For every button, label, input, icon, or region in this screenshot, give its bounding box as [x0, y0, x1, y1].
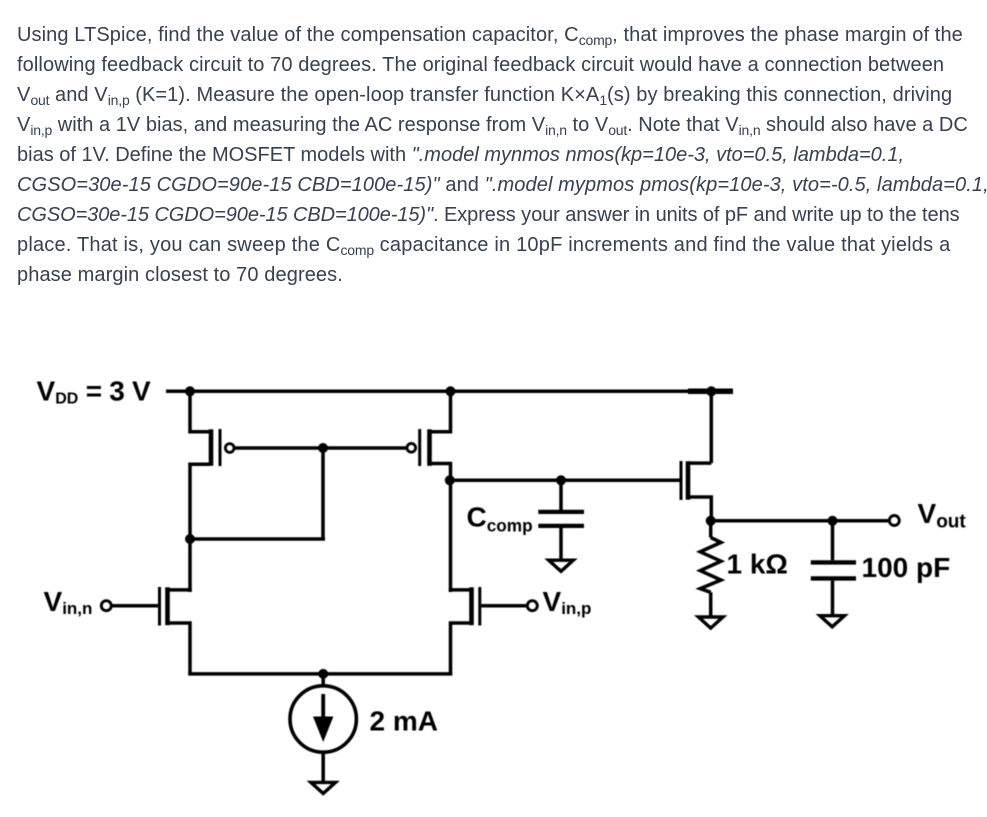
- svg-text:Vout: Vout: [918, 498, 967, 533]
- wire diode feedback horizontal: [188, 537, 325, 541]
- transistor M2 (right PMOS) gate bubble: [407, 443, 416, 452]
- transistor M5 channel bar: [686, 461, 691, 499]
- transistor M1 drain lead wire: [190, 464, 210, 592]
- transistor M5 drain lead: [687, 461, 711, 465]
- terminal Vout: [889, 516, 899, 526]
- resistor R1 zigzag body: [700, 538, 721, 593]
- terminal Vin,n: [101, 601, 111, 611]
- transistor M1 gate bar: [219, 429, 222, 466]
- transistor M2 source lead wire: [431, 391, 451, 432]
- wire M4 gate: [481, 604, 526, 608]
- node drain junction M1: [185, 534, 195, 544]
- node VDD junction left: [185, 386, 195, 396]
- node Ccomp tap junction: [556, 475, 566, 485]
- svg-text:Ccomp: Ccomp: [467, 502, 533, 536]
- transistor M1 channel bar: [209, 429, 214, 466]
- svg-text:2 mA: 2 mA: [370, 706, 438, 737]
- transistor M3 source lead wire: [169, 623, 190, 675]
- wire gate bus M1-M2: [234, 446, 407, 450]
- node gate-bus junction: [318, 443, 328, 453]
- transistor M3 drain lead wire: [169, 588, 190, 590]
- node tail junction: [318, 669, 328, 679]
- capacitor C2 bottom wire: [831, 581, 835, 615]
- terminal Vin,p: [527, 601, 537, 611]
- node VDD junction right: [706, 386, 716, 396]
- capacitor C2 top plate: [811, 560, 856, 564]
- current source I1 bottom wire: [321, 752, 325, 781]
- current source I1 top wire: [321, 674, 325, 686]
- wire first-stage output vertical: [449, 480, 453, 592]
- node Vout junction: [706, 516, 716, 526]
- wire M3 gate: [112, 604, 158, 608]
- current source I1 arrow shaft: [321, 694, 325, 719]
- ground below C_comp: [549, 560, 574, 571]
- transistor M5 source lead wire: [687, 497, 711, 522]
- transistor M4 (right NMOS, Vin,p) drain lead wire: [451, 588, 470, 590]
- transistor M5 (second stage NMOS) drain wire from rail: [710, 391, 714, 463]
- node VDD junction mid: [446, 386, 456, 396]
- resistor R1 bottom wire: [709, 592, 713, 615]
- transistor M5 gate bar: [680, 461, 683, 500]
- transistor M3 (left NMOS, Vin,n) gate bar: [158, 587, 161, 626]
- capacitor C_comp bottom plate: [538, 524, 584, 528]
- resistor R1 top wire: [709, 521, 713, 538]
- current source I1 circle: [290, 686, 356, 752]
- svg-text:100 pF: 100 pF: [862, 552, 951, 583]
- svg-text:Vin,p: Vin,p: [543, 586, 592, 618]
- capacitor C_comp top plate: [538, 510, 584, 514]
- ground below C2: [820, 616, 845, 627]
- ground below R1: [698, 617, 723, 628]
- transistor M4 source lead wire: [451, 623, 470, 675]
- VDD rail wire: [166, 390, 733, 394]
- wire tail bus: [188, 672, 452, 676]
- transistor M2 channel bar: [427, 429, 432, 466]
- svg-text:Vin,n: Vin,n: [44, 586, 93, 618]
- wire output horizontal: [711, 519, 888, 523]
- ground below I1: [311, 782, 336, 793]
- capacitor C_comp bottom wire: [559, 528, 563, 559]
- capacitor C2 bottom plate: [811, 576, 856, 580]
- transistor M4 channel bar: [469, 587, 474, 625]
- transistor M1 gate bubble: [225, 444, 234, 453]
- capacitor C_comp top wire: [559, 480, 563, 510]
- node first-stage output junction: [445, 475, 455, 485]
- svg-text:1 kΩ: 1 kΩ: [727, 549, 788, 580]
- svg-text:VDD = 3 V: VDD = 3 V: [37, 376, 152, 408]
- wire first-stage output horizontal: [450, 479, 680, 483]
- transistor M2 drain lead wire: [431, 464, 451, 482]
- transistor M3 channel bar: [165, 587, 170, 625]
- wire diode feedback vertical: [321, 448, 325, 539]
- transistor M2 gate bar: [418, 429, 421, 466]
- node output cap junction: [828, 516, 838, 526]
- capacitor C2 100pF top wire: [831, 521, 835, 560]
- transistor M4 gate bar: [478, 587, 481, 626]
- current source I1 arrow head: [313, 717, 333, 743]
- transistor M1 (left PMOS, diode-connected) source lead wire: [190, 391, 210, 432]
